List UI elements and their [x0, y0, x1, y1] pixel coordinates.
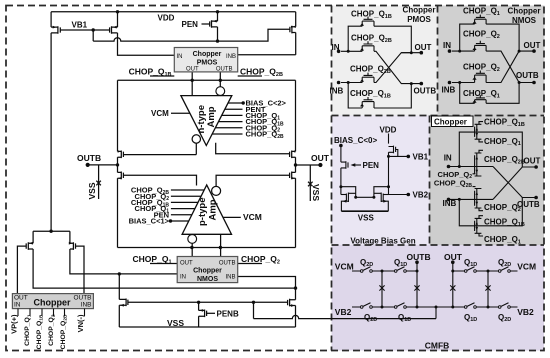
vbg left nmos diode drain: [341, 187, 356, 198]
vbg right nmos source: [381, 201, 388, 211]
vbg column down to VB2: [389, 156, 409, 194]
svg-text:OUTB: OUTB: [516, 71, 539, 80]
n-amp input stub CHOP_Q1: [222, 114, 243, 116]
cascode lower-right NMOS body: [290, 172, 296, 180]
svg-text:PENB: PENB: [217, 309, 239, 318]
p-amp input stub PEN: [171, 214, 192, 216]
p-amp output to chopper nmos OUT: [191, 243, 193, 256]
M_R drain to chopper IN: [118, 33, 175, 55]
bottom left NMOS source: [118, 305, 120, 327]
p4 OUT dot: [534, 165, 538, 169]
p2 switch arrows: [472, 21, 476, 24]
svg-text:p-type: p-type: [197, 198, 208, 227]
arrow NMOS bottom-right: [291, 304, 295, 307]
p1 INB wire: [341, 82, 362, 84]
cmfb switch top Q1D left: [397, 267, 405, 271]
vbg left nmos body: [346, 193, 348, 203]
cascode upper-left PMOS body: [118, 151, 124, 159]
M_R source: [117, 12, 119, 27]
arrow PENB: [199, 309, 203, 312]
svg-text:VB1: VB1: [72, 20, 88, 29]
svg-text:OUTB: OUTB: [517, 200, 540, 209]
vbg VSS rail: [341, 210, 388, 212]
svg-text:VCM: VCM: [517, 262, 536, 272]
svg-text:VSS: VSS: [311, 184, 321, 201]
svg-text:VSS: VSS: [87, 182, 97, 199]
PEN gate lead: [202, 23, 210, 25]
top-right PMOS drain: [295, 33, 297, 55]
VDD rail: [51, 11, 296, 13]
svg-text:OUTB: OUTB: [219, 260, 236, 266]
svg-text:PEN: PEN: [182, 20, 199, 29]
n-amp internal text: [196, 105, 217, 134]
vbg VDD wire: [388, 134, 390, 144]
p-amp input stub CHOP_Q2: [171, 195, 201, 197]
n-amp input stub CHOP_Q2: [215, 127, 242, 129]
bottom cascode rail: [118, 247, 296, 249]
n-amp output bubble: [192, 135, 200, 143]
p2 cross diagonal up: [486, 51, 534, 82]
vbg pmos1 diode gate: [396, 150, 398, 157]
svg-text:NMOS: NMOS: [512, 16, 537, 25]
p4 OUTB dot: [534, 196, 538, 200]
p1 top loop: [348, 26, 411, 53]
svg-text:Chopper: Chopper: [193, 51, 222, 58]
cmfb node dots: [415, 260, 419, 264]
svg-text:PMOS: PMOS: [407, 15, 431, 24]
branch to CMFB VB2: [253, 302, 255, 318]
bottom left NMOS drain: [118, 274, 120, 300]
svg-text:VB2: VB2: [413, 191, 429, 200]
stubs under bottom chopper box: [18, 309, 85, 316]
p1 OUT dot: [420, 51, 424, 55]
svg-text:VB2: VB2: [517, 307, 534, 317]
svg-text:INB: INB: [226, 54, 236, 60]
main area texts: [72, 14, 330, 328]
PEN source: [217, 12, 219, 21]
vbg right nmos drain: [374, 187, 389, 198]
junction dots main: [49, 10, 322, 304]
svg-text:INB: INB: [443, 199, 457, 208]
svg-text:VB1: VB1: [413, 153, 429, 162]
svg-text:CHOP_Q1: CHOP_Q1: [463, 89, 500, 99]
svg-text:OUTB: OUTB: [77, 153, 101, 163]
p-amp input stub CHOP_Q1: [171, 208, 195, 210]
vbg left nmos source: [341, 201, 348, 211]
svg-text:Amp: Amp: [206, 106, 217, 127]
svg-text:OUTB: OUTB: [407, 252, 431, 262]
arrow top-right PMOS: [291, 25, 296, 28]
p1 switch T2 CHOP_Q2B: [362, 41, 374, 51]
arrow NMOS bottom-left: [120, 304, 124, 307]
cmfb bottom row: [352, 306, 518, 308]
input pair tail: [33, 231, 70, 243]
svg-text:OUTB: OUTB: [73, 294, 91, 301]
cascode upper-left gate wire: [123, 154, 196, 156]
left lower source to bottom rail: [117, 178, 119, 247]
svg-text:INB: INB: [442, 86, 456, 95]
n-amp input stub BIAS_C2: [228, 102, 243, 104]
input PMOS left gate: [17, 246, 26, 294]
input PMOS right body: [70, 242, 76, 250]
vbg left nmos arrow: [342, 200, 346, 203]
p-amp VCM stub: [223, 216, 241, 218]
VB1 stub down: [92, 30, 94, 41]
p-amp bottom bubble: [188, 235, 197, 244]
p1 bottom loop: [348, 83, 411, 109]
p4 bottom loop: [459, 198, 522, 226]
n-amp input stub PENT: [225, 108, 243, 110]
svg-text:INB: INB: [330, 87, 344, 96]
svg-text:INB: INB: [81, 302, 92, 309]
input PMOS right gate: [76, 246, 85, 294]
svg-text:NMOS: NMOS: [197, 276, 218, 283]
dashed separator panels1-2 bottom: [332, 115, 545, 117]
panel fill Voltage Bias Gen: [332, 116, 430, 246]
input right drain to chopper nmos IN: [70, 249, 177, 274]
p4 IN row to diagonal: [493, 167, 536, 198]
cmfb OUT column: [452, 262, 454, 307]
n-amp input stub CHOP_Q1B: [219, 121, 243, 123]
svg-text:BIAS_C<1>: BIAS_C<1>: [129, 217, 170, 226]
svg-text:CHOP_Q2: CHOP_Q2: [463, 30, 500, 40]
svg-text:OUT: OUT: [415, 43, 432, 52]
vbg VB2 dot: [407, 193, 411, 197]
p4 IN wire: [449, 166, 494, 168]
p4 IN dot: [447, 165, 451, 169]
p-amp input stub CHOP_Q2B: [171, 189, 204, 191]
OUT cap line: [309, 165, 311, 201]
vbg gate link wire: [356, 196, 374, 198]
top-right PMOS source: [295, 12, 297, 27]
panel fill Chopper detail: [430, 116, 545, 246]
p1 OUTB dot: [420, 82, 424, 86]
dashed separator above CMFB: [332, 244, 545, 246]
cascode upper-right gate wire: [216, 143, 290, 154]
svg-text:OUT: OUT: [180, 260, 193, 266]
svg-text:Chopper: Chopper: [193, 268, 222, 275]
svg-text:BIAS_C<0>: BIAS_C<0>: [334, 136, 377, 145]
OUTB node vertical: [117, 157, 119, 172]
arrow cascode UR: [293, 150, 296, 153]
svg-text:VP(+): VP(+): [10, 314, 19, 334]
p2 IN dot: [448, 49, 452, 53]
wire to CMFB with hop: [254, 315, 437, 318]
cmfb top row left: [352, 270, 417, 272]
p4 switch SW2 on IN row: [473, 150, 484, 186]
panel fill Chopper PMOS detail: [332, 6, 438, 116]
cmfb switch top Q2D right: [501, 267, 509, 271]
p2 switch T2 CHOP_Q2: [475, 41, 487, 51]
svg-text:IN: IN: [177, 54, 183, 60]
dashed separator between chopper pmos and nmos panels: [437, 6, 439, 116]
p2 switch T3 CHOP_Q2: [475, 71, 487, 83]
svg-text:IN: IN: [443, 41, 451, 50]
INB wire to chopper pmos box: [238, 54, 296, 56]
svg-text:VDD: VDD: [158, 14, 175, 23]
svg-text:OUT: OUT: [524, 41, 541, 50]
p2 INB dot: [448, 81, 452, 85]
svg-text:Chopper: Chopper: [403, 6, 436, 15]
chopper nmos INB wire: [238, 277, 296, 289]
p2 OUTB dot: [532, 81, 536, 85]
p4 switch arrows: [476, 128, 479, 131]
top cascode rail: [118, 79, 296, 81]
top-right PMOS body: [290, 26, 296, 34]
OUTB wire: [88, 164, 118, 166]
svg-text:CHOP_Q1: CHOP_Q1: [484, 235, 521, 245]
svg-text:Chopper: Chopper: [434, 117, 467, 126]
p1 switch T3 CHOP_Q2B: [362, 73, 374, 83]
p1 cross diagonal down: [374, 51, 421, 83]
OUT cap X mark: [308, 182, 313, 187]
bottom chopper box: [12, 294, 93, 309]
PEN drain: [217, 27, 219, 41]
vbg pmos2 body: [341, 161, 348, 169]
right lower source to bottom rail: [295, 178, 297, 247]
panel fill CMFB: [332, 245, 545, 351]
svg-text:PMOS: PMOS: [197, 60, 218, 67]
arrow PEN: [213, 20, 217, 23]
vbg pen gate lead: [355, 164, 362, 166]
p4 INB row to diagonal: [493, 167, 536, 199]
p1 IN dot: [337, 50, 341, 54]
n-amp VCM stub: [171, 112, 190, 114]
svg-text:VN(-): VN(-): [76, 314, 85, 332]
PEN transistor body: [210, 20, 218, 28]
p1 switch T1 CHOP_Q1B: [362, 17, 374, 27]
p4 INB wire: [449, 198, 494, 200]
VSS rail: [119, 326, 295, 328]
penb gate net wire: [128, 301, 288, 303]
vbg VB1 dot: [407, 155, 411, 159]
cascode lower-left gate wire: [123, 175, 196, 185]
PENB gate lead: [207, 312, 215, 314]
cmfb cap column 1: [381, 271, 383, 307]
arrow input left: [29, 242, 33, 245]
p2 IN wire: [452, 50, 475, 52]
cascode upper-right PMOS body: [290, 151, 296, 159]
arrow cascode LL: [118, 177, 121, 180]
left frame source feed: [117, 80, 119, 151]
svg-text:CHOP_Q1: CHOP_Q1: [133, 254, 172, 266]
svg-text:PEN: PEN: [363, 161, 380, 170]
svg-text:Amp: Amp: [208, 199, 219, 220]
p4 INB dot: [447, 198, 451, 202]
svg-text:VSS: VSS: [167, 318, 184, 328]
svg-text:INB: INB: [225, 274, 235, 280]
p1 IN wire: [341, 50, 362, 52]
svg-text:Chopper: Chopper: [34, 298, 71, 308]
arrow cascode LR: [292, 177, 295, 180]
cmfb vb2 feed from main: [435, 307, 437, 319]
vbg right gate feed: [383, 194, 388, 196]
p-amp outputb to chopper nmos OUTB: [220, 234, 222, 256]
svg-text:IN: IN: [332, 43, 340, 52]
p1 switch T4 CHOP_Q1B: [362, 97, 374, 108]
cascode lower-left NMOS body: [118, 172, 124, 180]
p4 top loop: [459, 132, 522, 167]
transistor arrows main: [29, 20, 296, 312]
svg-text:OUT: OUT: [311, 153, 330, 163]
chopper pmos OUT wire down: [191, 72, 193, 96]
p4 switch SW4 CHOP_Q1B/Q1: [475, 216, 483, 236]
p-amp internal text: [197, 198, 219, 227]
p1 OUT wire segment: [401, 52, 411, 54]
OUTB cap X mark: [96, 181, 101, 186]
chopper nmos CHOP_Q2 stub: [238, 263, 262, 265]
vbg right nmos arrow: [383, 200, 387, 203]
arrow M_R: [113, 26, 117, 29]
n-amp right labels: [246, 99, 287, 140]
svg-text:CHOP_Q1: CHOP_Q1: [463, 7, 500, 17]
transistor M_L source lead: [50, 12, 52, 27]
svg-text:VDD: VDD: [380, 126, 397, 135]
p2 bottom loop: [460, 83, 519, 104]
vbg pmos1 drain to VB1: [389, 152, 409, 156]
riser to n-amp bubble: [195, 143, 197, 154]
p-amp input stub BIAS_C1: [171, 220, 189, 222]
cmfb switch contact circles: [360, 270, 363, 273]
svg-text:CHOP_Q2: CHOP_Q2: [484, 203, 521, 213]
vbg right nmos body: [381, 193, 383, 203]
n-amp input stub CHOP_Q2B: [212, 133, 242, 135]
panel fill Chopper NMOS detail: [438, 6, 545, 116]
CHOP_Q2B wire stub: [238, 75, 262, 77]
chopper PMOS box: [174, 48, 237, 73]
cascode lower-right gate wire: [216, 175, 290, 186]
p2 INB wire: [452, 82, 475, 84]
svg-text:CMFB: CMFB: [425, 341, 450, 351]
svg-text:VCM: VCM: [335, 262, 354, 272]
vbg pmos1 body: [389, 146, 396, 154]
p-amp left labels: [129, 186, 170, 226]
bottom right NMOS drain: [295, 288, 297, 300]
input PMOS left body: [26, 242, 33, 250]
cmfb switch top Q2D: [363, 267, 371, 271]
bias rail with hop: [93, 29, 290, 41]
transistor M_L drain to tail: [50, 33, 52, 231]
p1 INB dot: [337, 81, 341, 85]
vbg BIAS dot: [339, 144, 343, 148]
svg-text:IN: IN: [444, 154, 452, 163]
svg-text:OUT: OUT: [14, 294, 28, 301]
right frame source feed: [295, 80, 297, 151]
PENB source: [198, 316, 200, 327]
chopper nmos CHOP_Q1 stub: [150, 263, 177, 265]
input left drain long wire: [33, 249, 295, 288]
vbg left nmos gate feed: [341, 194, 347, 196]
svg-text:VSS: VSS: [358, 214, 375, 223]
p1 cross diagonal up: [374, 53, 421, 83]
p4 switch SW3 on INB row: [475, 189, 483, 211]
chopper NMOS box: [177, 257, 238, 284]
PENB drain: [198, 302, 200, 310]
svg-text:Voltage Bias Gen: Voltage Bias Gen: [350, 237, 415, 246]
cmfb top row right: [453, 270, 518, 272]
bottom left NMOS body: [119, 299, 128, 307]
svg-text:Chopper: Chopper: [508, 7, 541, 16]
svg-text:OUT: OUT: [444, 252, 463, 262]
svg-text:IN: IN: [180, 274, 186, 280]
svg-text:VCM: VCM: [151, 109, 169, 118]
svg-text:OUT: OUT: [186, 67, 199, 73]
dashed separator main/right: [331, 6, 333, 351]
p4 switch SW1 CHOP_Q1B/Q1: [475, 122, 483, 142]
p1 switch arrows: [360, 23, 364, 26]
dashed separator between VBG and chopper detail: [429, 116, 431, 246]
vbg bias wire down: [340, 146, 342, 163]
arrow M_L: [53, 26, 57, 29]
cmfb bottom switches: [363, 303, 371, 307]
p2 top loop: [460, 24, 519, 51]
cmfb switch top Q1D right: [467, 267, 475, 271]
svg-text:CHOP_Q2: CHOP_Q2: [241, 254, 280, 266]
p-amp input stub CHOP_Q1B: [171, 201, 198, 203]
n-amp top bubble: [216, 87, 225, 96]
vbg pen arrow: [351, 163, 356, 166]
p-type amp triangle: [182, 185, 231, 234]
cmfb X marks: [379, 285, 384, 290]
svg-text:OUTB: OUTB: [216, 67, 233, 73]
VB1 wire: [60, 29, 109, 31]
bottom right NMOS source: [295, 306, 297, 328]
svg-text:VB2: VB2: [335, 307, 352, 317]
p2 switch T1 CHOP_Q1: [475, 15, 487, 25]
CHOP_Q1B wire stub: [150, 75, 174, 77]
OUT wire: [296, 164, 321, 166]
cmfb cap column 4: [487, 271, 489, 307]
svg-text:IN: IN: [14, 302, 21, 309]
n-type amp triangle: [181, 96, 232, 146]
p4 title box: [432, 116, 474, 127]
OUTB cap line: [98, 165, 100, 199]
svg-text:OUTB: OUTB: [414, 87, 437, 96]
p2 cross diagonal down: [486, 51, 534, 82]
arrow cascode UL: [118, 150, 121, 153]
p-amp input bubble: [212, 186, 221, 195]
OUT node vertical: [295, 157, 297, 172]
p2 OUT dot: [532, 49, 536, 53]
arrow input right: [69, 242, 73, 245]
transistor M_L body: [51, 26, 60, 34]
svg-text:CHOP_Q1: CHOP_Q1: [484, 137, 521, 147]
p2 switch T4 CHOP_Q1: [475, 95, 487, 103]
svg-text:CHOP_Q2: CHOP_Q2: [463, 63, 500, 73]
svg-text:VCM: VCM: [243, 212, 262, 222]
bottom right NMOS body: [288, 299, 296, 307]
transistor M_R body: [110, 26, 118, 34]
svg-text:OUT: OUT: [524, 157, 541, 166]
cmfb OUTB column: [416, 262, 418, 307]
vbg pmos2 drain down: [340, 168, 342, 195]
chopper pmos OUTB wire down: [219, 72, 221, 87]
PENB transistor body: [199, 310, 207, 318]
